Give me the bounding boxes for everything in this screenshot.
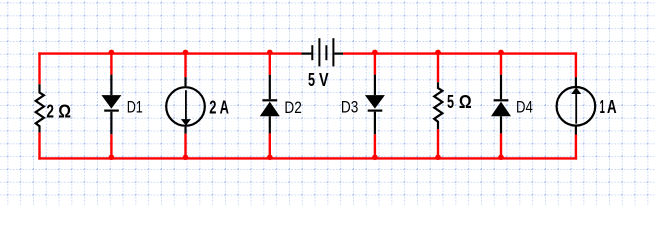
wire D1 bottom stub [110, 134, 112, 158]
diode D4 [491, 75, 511, 134]
node dot top I1 [183, 50, 189, 56]
wire D2 top stub [269, 54, 271, 75]
svg-text:D2: D2 [284, 98, 301, 117]
svg-text:5: 5 [447, 91, 454, 112]
svg-text:2 A: 2 A [209, 97, 229, 118]
wire bottom [38, 157, 577, 159]
svg-text:D4: D4 [516, 98, 533, 117]
current source I1 2A [166, 77, 205, 133]
wire D4 bottom stub [500, 133, 502, 158]
svg-text:D1: D1 [127, 97, 143, 116]
wire D3 bottom stub [374, 134, 376, 158]
node dot top D3 [372, 50, 378, 56]
node dot bottom R2 [435, 155, 441, 161]
current source I2 1A [557, 77, 596, 134]
wire D3 top stub [374, 54, 376, 75]
wire R2 top stub [437, 54, 439, 83]
svg-text:V: V [319, 69, 329, 90]
svg-text:1: 1 [600, 96, 605, 117]
node dot top R2 [435, 50, 441, 56]
node dot bottom I1 [183, 155, 189, 161]
node dot bottom D1 [109, 155, 115, 161]
wire top left segment [38, 52, 301, 54]
wire left upper [38, 52, 40, 84]
wire I1 bottom stub [184, 134, 186, 159]
svg-text:2: 2 [46, 100, 54, 121]
resistor R2 5ohm [434, 82, 442, 129]
node dot top D1 [109, 50, 115, 56]
wire D1 top stub [110, 54, 112, 75]
node dot top D2 [267, 50, 273, 56]
wire I1 top stub [184, 54, 186, 78]
svg-text:Ω: Ω [58, 100, 71, 121]
node dot top D4 [498, 50, 504, 56]
wire right upper [575, 52, 577, 77]
svg-text:Ω: Ω [459, 91, 472, 112]
wire left lower [38, 132, 40, 159]
diode D2 [260, 75, 280, 134]
node dot bottom D2 [267, 155, 273, 161]
resistor R1 2ohm [36, 84, 44, 132]
svg-text:A: A [607, 96, 617, 117]
wire top right segment [343, 52, 577, 54]
wire D2 bottom stub [269, 133, 271, 158]
wire R2 bottom stub [437, 129, 439, 158]
wire D4 top stub [500, 54, 502, 75]
node dot bottom D4 [498, 155, 504, 161]
battery V1 [302, 38, 344, 66]
svg-text:D3: D3 [341, 98, 358, 117]
diode D1 [101, 75, 121, 135]
wire right lower [575, 135, 577, 160]
svg-text:5: 5 [308, 69, 315, 90]
node dot bottom D3 [372, 155, 378, 161]
diode D3 [365, 75, 385, 135]
